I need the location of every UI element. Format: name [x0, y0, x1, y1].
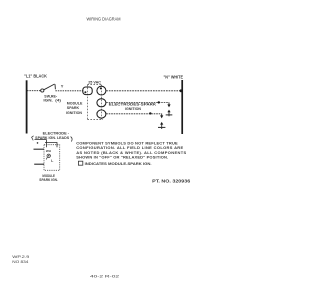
spark lead 1 into module box: [35, 140, 47, 148]
wire N bus: [181, 80, 183, 134]
svg-text:"L1" BLACK: "L1" BLACK: [24, 74, 48, 79]
wire L1 to switch: [27, 90, 41, 92]
wire into module box lower left: [34, 163, 44, 165]
module label MODULE SPARK IGNITION: [66, 101, 83, 114]
svg-text:25 VAC: 25 VAC: [88, 79, 101, 84]
module physical box: [44, 145, 60, 171]
wire module to N bus: [106, 90, 181, 92]
junction dot on electrode A wire: [158, 101, 160, 103]
svg-text:SHOWN IN "OFF" OR "RELAXED" PO: SHOWN IN "OFF" OR "RELAXED" POSITION.: [76, 155, 168, 160]
svg-text:40-2 R-02: 40-2 R-02: [90, 275, 119, 279]
label MODULE SPARK IGN.: [39, 174, 58, 182]
switch label SW, RE-IGN. (4): [43, 94, 62, 102]
wire switch to module: [55, 90, 83, 92]
module terminal N: [97, 86, 106, 95]
callout ELECTRODE SPARK IGN. LEADS: [32, 132, 73, 142]
note paragraph: [76, 140, 186, 159]
svg-text:Y: Y: [61, 83, 64, 88]
spark gap electrode B: [158, 114, 165, 129]
footer code left: [12, 255, 29, 264]
module box internal coil circle: [46, 154, 53, 163]
label ELECTRODES-SPARK IGNITION: [109, 103, 157, 111]
svg-text:IGNITION: IGNITION: [66, 111, 82, 115]
svg-text:MODULE: MODULE: [67, 101, 83, 105]
svg-text:SPARK: SPARK: [67, 106, 80, 110]
wire into module box upper left: [34, 148, 45, 150]
svg-text:WH: WH: [46, 149, 51, 153]
svg-text:WIRING DIAGRAM: WIRING DIAGRAM: [87, 17, 121, 22]
wire L1 bus: [26, 80, 28, 133]
module terminal electrode 1: [97, 99, 106, 107]
svg-text:INDICATES MODULE-SPARK IGN.: INDICATES MODULE-SPARK IGN.: [85, 161, 152, 166]
svg-text:ELECTRODE -: ELECTRODE -: [43, 132, 70, 136]
svg-text:WP.2.9: WP.2.9: [12, 255, 29, 259]
module terminal electrode 2: [97, 110, 106, 118]
svg-text:SPARK IGN.: SPARK IGN.: [39, 178, 58, 182]
module dashed box: [87, 85, 103, 120]
svg-text:IGN. (4): IGN. (4): [43, 98, 62, 102]
svg-text:IGNITION: IGNITION: [125, 107, 141, 111]
svg-text:NO 834: NO 834: [12, 260, 28, 264]
svg-text:L: L: [51, 159, 53, 163]
junction dot at N bus: [180, 89, 183, 92]
spark lead 2 into module box: [45, 143, 57, 148]
note legend square: [78, 161, 151, 166]
svg-text:PT. NO. 320936: PT. NO. 320936: [152, 178, 191, 183]
wire module to electrode A: [106, 102, 169, 104]
module terminal L1 input: [83, 87, 92, 95]
junction dot on electrode B wire: [149, 112, 151, 114]
wire module to electrode B: [106, 113, 162, 115]
switch SW, RE-IGN. (4): [41, 84, 56, 92]
spark gap electrode A: [166, 102, 173, 116]
svg-text:"N" WHITE: "N" WHITE: [164, 74, 184, 79]
